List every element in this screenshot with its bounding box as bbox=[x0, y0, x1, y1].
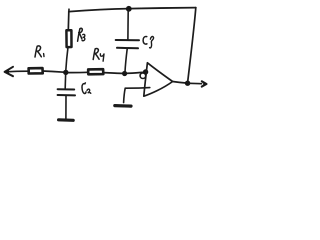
wire node A to R4 bbox=[68, 71, 88, 73]
capacitor C5 bottom lead bbox=[125, 49, 127, 72]
top wire bbox=[69, 8, 196, 12]
wire R3 top lead bbox=[67, 12, 70, 30]
capacitor C2 bottom plate bbox=[58, 94, 75, 96]
wire R3 bottom lead to node A bbox=[66, 47, 68, 70]
op-amp U1 bbox=[144, 63, 173, 96]
capacitor C5 top plate bbox=[116, 39, 139, 41]
label R4 bbox=[93, 48, 104, 61]
output node dot bbox=[185, 81, 190, 86]
corner tick top-left bbox=[68, 9, 70, 12]
capacitor C5 top lead bbox=[127, 10, 129, 40]
resistor R1 bbox=[29, 68, 43, 73]
wire R1 to node A bbox=[43, 71, 64, 72]
junction dot C5 bottom bbox=[122, 71, 127, 76]
label R1 bbox=[35, 46, 44, 57]
capacitor C2 top lead bbox=[64, 75, 66, 88]
node A junction dot bbox=[63, 70, 68, 75]
wire op-amp output bbox=[173, 82, 186, 84]
ground (op-amp + input) bbox=[115, 104, 131, 108]
capacitor C2 top plate bbox=[58, 88, 75, 90]
label C5 bbox=[143, 36, 153, 48]
capacitor C2 bottom lead bbox=[65, 96, 67, 119]
input loop bubble bbox=[140, 73, 146, 79]
output arrow bbox=[189, 81, 207, 86]
input arrow bbox=[5, 67, 28, 76]
resistor R3 bbox=[66, 30, 71, 47]
wire right side down bbox=[188, 8, 196, 82]
capacitor C5 bottom plate bbox=[117, 47, 138, 50]
ground (C2 bottom) bbox=[59, 118, 74, 122]
junction dot top (C5) bbox=[126, 6, 132, 12]
wire op-amp non-inverting input bbox=[124, 88, 150, 103]
junction dot op-amp inverting input bbox=[143, 69, 148, 74]
resistor R4 bbox=[88, 69, 103, 74]
label R3 bbox=[78, 28, 85, 41]
label C2 bbox=[82, 82, 91, 93]
wire R4 to op-amp input bbox=[103, 72, 144, 73]
